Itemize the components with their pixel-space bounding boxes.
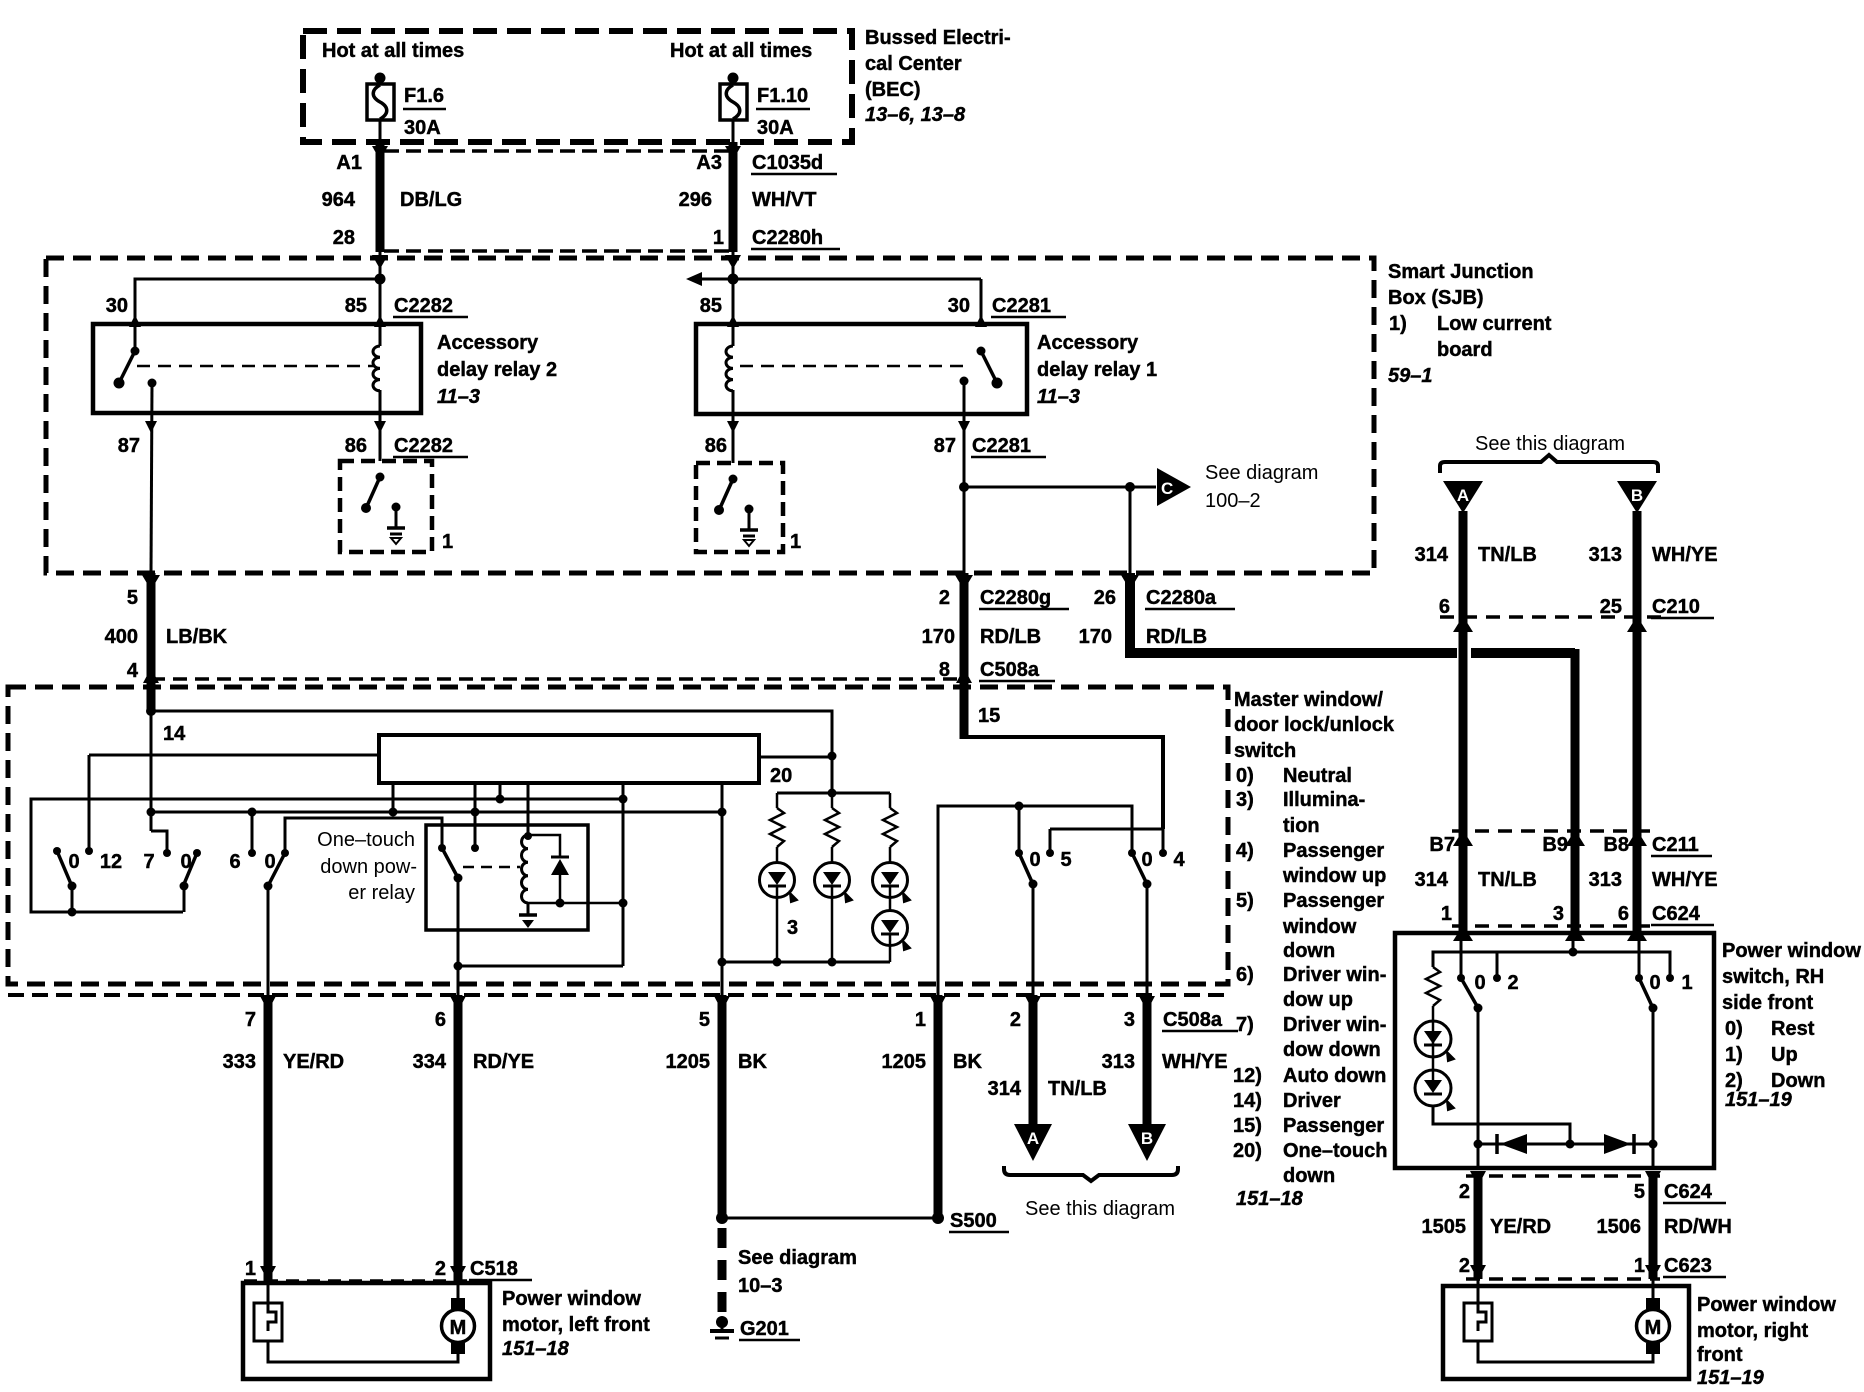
wire 334 RD/YE exit [450,995,466,1281]
wire 1205 BK exit (pin1) [930,995,946,1218]
svg-text:7: 7 [245,1009,256,1031]
svg-text:C2281: C2281 [992,295,1051,317]
label 313 WH/YE (lower) [1589,869,1718,891]
wire C623 pin1 to motor [1652,1279,1655,1299]
svg-text:See this diagram: See this diagram [1025,1198,1175,1220]
svg-text:100–2: 100–2 [1205,490,1261,512]
pin 85 relay1 [700,295,722,317]
wire 296 WH/VT (fuse F1.10 to SJB pin 1) [725,142,741,269]
svg-text:One–touch: One–touch [1283,1140,1387,1162]
label 1205 BK (pin1) [882,1051,983,1073]
svg-text:1506: 1506 [1597,1216,1642,1238]
svg-text:Low current: Low current [1437,313,1552,335]
wire 170 RD/LB (pin 2) [955,573,973,687]
motor M left [442,1298,475,1354]
svg-text:Passenger: Passenger [1283,840,1384,862]
svg-text:1505: 1505 [1422,1216,1467,1238]
svg-text:C1035d: C1035d [752,152,823,174]
wire motor loop right [1478,1341,1653,1362]
svg-text:C210: C210 [1652,596,1700,618]
svg-text:3: 3 [787,917,798,939]
svg-text:cal Center: cal Center [865,53,962,75]
fuse F1.6 30A [367,73,446,144]
wire bus driver common [31,795,628,917]
svg-text:B: B [1631,486,1643,505]
svg-text:See diagram: See diagram [1205,462,1318,484]
switch ground switch left [340,461,432,552]
wire pin 14 entry [146,679,156,716]
svg-text:tion: tion [1283,815,1320,837]
label 170 RD/LB (pin 2) [922,626,1041,648]
wire RD/LB to B9 arrow [1565,830,1585,846]
pin 20 [770,765,792,787]
svg-text:(BEC): (BEC) [865,79,921,101]
label See this diagram (top) [1475,433,1625,455]
svg-text:Driver: Driver [1283,1090,1341,1112]
svg-text:WH/YE: WH/YE [1162,1051,1228,1073]
pin 87 relay1 / connector C2281 [934,435,1046,457]
connector C210 [1439,596,1714,618]
svg-text:20): 20) [1233,1140,1262,1162]
svg-text:0: 0 [1029,849,1040,871]
svg-text:C2282: C2282 [394,435,453,457]
svg-text:BK: BK [738,1051,767,1073]
svg-text:delay relay 2: delay relay 2 [437,359,557,381]
label 1205 BK (pin5) [666,1051,768,1073]
svg-text:switch: switch [1234,740,1296,762]
svg-text:Smart Junction: Smart Junction [1388,261,1534,283]
label Hot at all times (left) [322,40,464,62]
wire bus 812 [147,808,727,817]
ground (in left ground switch) [387,503,405,545]
svg-text:M: M [1645,1317,1662,1339]
pin 28 [333,227,355,249]
wire C623 pin2 to breaker [1477,1279,1480,1303]
svg-text:3: 3 [1124,1009,1135,1031]
svg-text:Rest: Rest [1771,1018,1815,1040]
svg-text:A3: A3 [696,152,722,174]
svg-text:WH/YE: WH/YE [1652,869,1718,891]
svg-text:4): 4) [1236,840,1254,862]
svg-text:30: 30 [948,295,970,317]
wire C518 pin2 to motor [457,1281,460,1299]
wire 964 DB/LG (fuse F1.6 to SJB pin 28) [372,142,388,269]
svg-text:Power window: Power window [1722,940,1861,962]
svg-text:RD/YE: RD/YE [473,1051,534,1073]
svg-text:28: 28 [333,227,355,249]
node A (top arrow) [1443,481,1483,513]
svg-text:front: front [1697,1344,1743,1366]
svg-text:0: 0 [1649,972,1660,994]
svg-text:12: 12 [100,851,122,873]
svg-text:4: 4 [127,660,139,682]
wire 314 TN/LB (C210 to C211) [1453,617,1473,846]
wire 1505 YE/RD [1474,1176,1483,1279]
svg-text:85: 85 [345,295,367,317]
wire 170 RD/LB (pin 26) [1121,573,1575,831]
label 313 WH/YE (upper) [1589,544,1718,566]
svg-text:151–18: 151–18 [502,1338,570,1360]
svg-text:170: 170 [922,626,955,648]
label See diagram 10-3 [738,1247,857,1297]
svg-text:A: A [1027,1129,1039,1148]
svg-text:296: 296 [679,189,712,211]
svg-text:4: 4 [1173,849,1185,871]
pin 1 (left ground switch) [442,531,453,553]
svg-text:Passenger: Passenger [1283,1115,1384,1137]
svg-text:314: 314 [988,1078,1022,1100]
label 333 YE/RD [223,1051,345,1073]
wire pin 20 [759,756,832,759]
ground G201 [710,1316,800,1340]
wire contact 12 feed [89,755,379,851]
svg-text:1: 1 [1634,1255,1645,1277]
wire B8 to C624 pin6 [1627,831,1647,941]
svg-text:Hot at all times: Hot at all times [322,40,464,62]
svg-text:14): 14) [1233,1090,1262,1112]
svg-text:0): 0) [1725,1018,1743,1040]
svg-text:M: M [450,1317,467,1339]
svg-text:See diagram: See diagram [738,1247,857,1269]
svg-text:Power window: Power window [1697,1294,1836,1316]
svg-text:Accessory: Accessory [437,332,539,354]
node B (bottom arrow) [1128,1124,1166,1161]
relay U2 Accessory delay relay 1 [696,324,1027,414]
wire DB/LG into relay2 coil [374,251,386,346]
LED lamp 1 (RH switch) [1415,1006,1454,1070]
svg-text:C508a: C508a [980,659,1040,681]
connector C1035d / C2280h dashed box [384,151,733,251]
wire 314 TN/LB (A to C210) [1453,511,1473,632]
fuse F1.10 30A [720,73,810,144]
label 296 WH/VT [679,189,817,211]
label Power window motor right front 151-19 [1697,1294,1836,1389]
LED bank top bus [777,789,890,798]
connector C1035d [751,152,837,174]
pin 26 / connector C2280a [1094,587,1235,609]
svg-text:C624: C624 [1652,903,1701,925]
label See this diagram (bottom) [1025,1198,1175,1220]
svg-text:Up: Up [1771,1044,1798,1066]
svg-text:20: 20 [770,765,792,787]
svg-text:Driver win-: Driver win- [1283,964,1386,986]
svg-text:See this diagram: See this diagram [1475,433,1625,455]
svg-text:Driver win-: Driver win- [1283,1014,1386,1036]
switch driver auto-down (0/12) [53,847,122,912]
svg-text:board: board [1437,339,1493,361]
svg-text:down: down [1283,940,1335,962]
label 964 DB/LG [322,189,463,211]
svg-text:1: 1 [1681,972,1692,994]
svg-text:Master window/: Master window/ [1234,689,1383,711]
wire LED bottom bus [718,958,891,967]
pin 1 (right ground switch) [790,531,801,553]
label Smart Junction Box (SJB) legend [1388,261,1552,387]
svg-text:switch, RH: switch, RH [1722,966,1824,988]
pin 15 [978,705,1000,727]
svg-text:door lock/unlock: door lock/unlock [1234,714,1395,736]
splice S500 [716,1210,1009,1232]
svg-text:1: 1 [713,227,724,249]
svg-text:C211: C211 [1652,834,1699,856]
svg-text:DB/LG: DB/LG [400,189,462,211]
svg-text:B9: B9 [1542,834,1568,856]
svg-text:motor, right: motor, right [1697,1320,1808,1342]
svg-text:C2280h: C2280h [752,227,823,249]
resistor R3 [883,793,897,847]
wire pin1 bus to passenger switches [938,802,1132,996]
svg-text:314: 314 [1415,869,1449,891]
wire rect to relay coil [524,783,532,840]
svg-text:26: 26 [1094,587,1116,609]
svg-text:B7: B7 [1429,834,1455,856]
svg-text:LB/BK: LB/BK [166,626,228,648]
LED lamp L3 [873,847,911,910]
svg-text:C624: C624 [1664,1181,1713,1203]
svg-text:87: 87 [934,435,956,457]
svg-text:5): 5) [1236,890,1254,912]
wire relay2 pin30 feed [129,274,386,352]
svg-text:151–19: 151–19 [1697,1367,1765,1389]
svg-text:C518: C518 [470,1258,518,1280]
svg-text:Neutral: Neutral [1283,765,1352,787]
wire RH switch feed bus [1433,948,1670,979]
svg-text:30A: 30A [404,117,441,139]
svg-text:334: 334 [413,1051,447,1073]
wire 14 vertical to switch 7 contact [151,711,167,853]
svg-text:Hot at all times: Hot at all times [670,40,812,62]
connector C211 [1429,831,1712,856]
wire diode row [1474,1140,1658,1149]
svg-text:6: 6 [1439,596,1450,618]
svg-text:6: 6 [435,1009,446,1031]
LED lamp L4 [873,911,911,963]
LED lamp L1 [760,847,798,962]
connector C623 [1459,1255,1726,1280]
resistor R2 [825,793,839,847]
wire B7 to C624 pin1 [1453,831,1473,941]
svg-text:delay relay 1: delay relay 1 [1037,359,1157,381]
connector row at master switch bottom [8,993,1228,997]
wire relay1 pin30 feed with arrow [686,272,987,327]
wire switch 0 to relay contact A [285,818,442,853]
label 314 TN/LB (lower) [1415,869,1537,891]
svg-text:0): 0) [1236,765,1254,787]
connector C508a (bottom) [1162,1009,1238,1031]
pin 14 [163,723,186,745]
switch RH left (0/2) [1457,972,1519,1013]
label 334 RD/YE [413,1051,535,1073]
svg-text:15: 15 [978,705,1000,727]
wire 333 YE/RD exit [260,995,276,1281]
wire RH left pivot down [1477,1008,1480,1168]
pin A1 [336,152,362,174]
wire pin6 into RH switch [1638,933,1641,978]
wire relay2 pin87 [145,383,157,573]
svg-text:Illumina-: Illumina- [1283,789,1365,811]
box Power window switch RH side front [1395,933,1714,1168]
svg-text:Passenger: Passenger [1283,890,1384,912]
label 313 WH/YE (pin3) [1102,1051,1228,1073]
svg-text:313: 313 [1102,1051,1135,1073]
svg-text:85: 85 [700,295,722,317]
resistor (RH switch illumination) [1426,967,1440,1006]
svg-text:F1.10: F1.10 [757,85,808,107]
svg-text:0: 0 [1474,972,1485,994]
box Master window/door lock/unlock switch [8,687,1228,984]
label 314 TN/LB (pin2) [988,1078,1107,1100]
svg-text:7: 7 [143,851,154,873]
svg-text:6: 6 [1618,903,1629,925]
svg-text:B: B [1141,1129,1153,1148]
wire C518 pin1 to breaker [267,1281,270,1303]
svg-text:1205: 1205 [666,1051,711,1073]
wire 313 WH/YE exit (pin3) [1139,995,1155,1126]
wire 1506 RD/WH [1649,1176,1658,1279]
svg-text:13–6, 13–8: 13–6, 13–8 [865,104,966,126]
wire RH right pivot down [1652,1008,1655,1168]
wire WH/VT into relay1 coil [727,251,739,346]
wire rect to bus1 [499,783,502,799]
svg-text:1: 1 [790,531,801,553]
wire relay2 pin86 [374,390,386,461]
label 400 LB/BK [105,626,228,648]
pin A3 [696,152,722,174]
diode (one-touch relay) [528,835,569,903]
box Smart Junction Box (SJB) [46,258,1374,573]
connector C624 bottom row [1459,1171,1726,1203]
svg-text:15): 15) [1233,1115,1262,1137]
pin 5 [127,587,138,609]
wire 313 WH/YE (B to C210) [1627,511,1647,632]
svg-text:86: 86 [705,435,727,457]
label 170 RD/LB (pin 26) [1079,626,1207,648]
label Power window switch RH legend [1722,940,1861,1111]
wire B9 to C624 pin3 [1565,831,1585,941]
svg-text:5: 5 [1634,1181,1645,1203]
node B (top arrow) [1617,481,1657,513]
svg-text:87: 87 [118,435,140,457]
svg-text:0: 0 [68,851,79,873]
resistor R1 [770,793,784,847]
svg-text:151–19: 151–19 [1725,1089,1793,1111]
box BEC [303,31,852,142]
svg-text:5: 5 [699,1009,710,1031]
svg-text:964: 964 [322,189,356,211]
circuit breaker (left motor) [254,1303,282,1341]
svg-text:11–3: 11–3 [1037,386,1080,408]
label 314 TN/LB (upper) [1415,544,1537,566]
pin labels master bottom [245,1009,1135,1031]
label 1505 YE/RD [1422,1216,1552,1238]
diode D2 (right, pointing right) [1604,1134,1634,1154]
svg-text:down: down [1283,1165,1335,1187]
svg-text:333: 333 [223,1051,256,1073]
label One-touch down power relay [317,829,417,904]
svg-text:151–18: 151–18 [1236,1188,1304,1210]
wire 314 TN/LB exit (pin2) [1025,995,1041,1126]
switch ground switch right [696,463,783,552]
svg-text:TN/LB: TN/LB [1478,544,1537,566]
svg-text:1: 1 [245,1258,256,1280]
svg-text:14: 14 [163,723,186,745]
wire relay1 pin87 [958,381,970,573]
svg-text:C508a: C508a [1163,1009,1223,1031]
svg-text:YE/RD: YE/RD [1490,1216,1551,1238]
connector C508a dashed row [151,677,964,681]
pin 86 relay1 [705,435,727,457]
svg-text:S500: S500 [950,1210,997,1232]
svg-text:C2281: C2281 [972,435,1031,457]
switch passenger window down (0/5) [1015,849,1072,995]
svg-text:C623: C623 [1664,1255,1712,1277]
wire bus1 to relay pivot [458,783,623,966]
label Master window switch legend [1233,689,1395,1210]
svg-text:5: 5 [1060,849,1071,871]
svg-text:30: 30 [106,295,128,317]
wire relay1 87 junction to C arrow [959,482,1156,492]
svg-text:window: window [1282,916,1357,938]
pin 4 [127,660,139,682]
switch RH right (0/1) [1635,972,1693,1013]
svg-text:A1: A1 [336,152,362,174]
svg-text:WH/VT: WH/VT [752,189,816,211]
svg-text:Auto down: Auto down [1283,1065,1386,1087]
svg-text:7): 7) [1236,1014,1254,1036]
svg-text:10–3: 10–3 [738,1275,783,1297]
relay one-touch down power relay [426,825,588,930]
wire coil bottom [528,899,628,908]
svg-text:One–touch: One–touch [317,829,415,851]
box Power window motor right front [1443,1286,1689,1379]
svg-text:F1.6: F1.6 [404,85,444,107]
node C see diagram 100-2 [1157,462,1318,512]
pin 86 relay2 / connector C2282 [345,435,468,457]
svg-text:WH/YE: WH/YE [1652,544,1718,566]
svg-text:12): 12) [1233,1065,1262,1087]
LED lamp 2 (RH switch) [1415,1070,1454,1110]
svg-text:3): 3) [1236,789,1254,811]
wire pin1 into RH switch [1460,933,1463,978]
diode D1 (left, pointing left) [1497,1134,1527,1154]
svg-text:C2282: C2282 [394,295,453,317]
svg-text:C2280g: C2280g [980,587,1051,609]
switch driver down (7/0) [143,849,201,912]
wire LED to diode row [1433,1106,1570,1144]
wire relay pivot down [454,878,463,995]
wire bus 15 to passenger contacts [964,737,1163,853]
circuit breaker (right motor) [1464,1303,1492,1341]
svg-text:2: 2 [939,587,950,609]
bus bar rectangle [379,735,759,783]
svg-text:5: 5 [127,587,138,609]
svg-text:313: 313 [1589,869,1622,891]
label Bussed Electrical Center (BEC) 13-6, 13-8 [865,27,1011,126]
wire motor loop left [268,1341,458,1362]
svg-text:G201: G201 [740,1318,789,1340]
svg-text:1): 1) [1389,313,1407,335]
switch passenger window up (0/4) [1128,849,1185,995]
svg-text:30A: 30A [757,117,794,139]
svg-text:1205: 1205 [882,1051,927,1073]
svg-text:B8: B8 [1603,834,1629,856]
wire relay1 pin86 [727,390,739,463]
svg-text:313: 313 [1589,544,1622,566]
svg-text:down pow-: down pow- [320,856,417,878]
pin 1 / connector C2280h [713,227,840,249]
connector C624 top row [1441,903,1714,926]
svg-text:1: 1 [442,531,453,553]
